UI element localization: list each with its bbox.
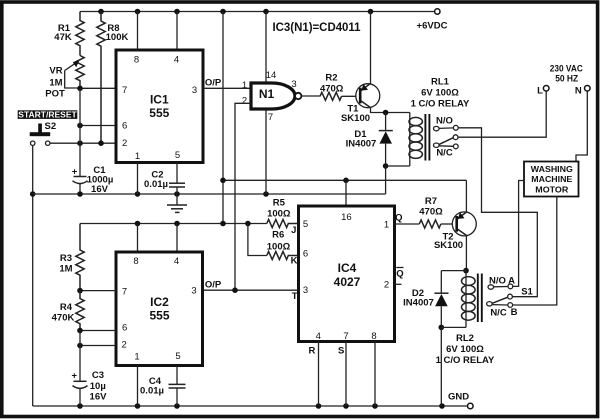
op-amp IC4 4027 box bbox=[299, 206, 395, 342]
svg-text:6V 100Ω: 6V 100Ω bbox=[421, 87, 459, 98]
wire IC1 O/P to N1 pin1 bbox=[203, 87, 251, 89]
wire upper ground rail bbox=[33, 193, 386, 195]
node +6VDC terminal bbox=[435, 9, 440, 14]
svg-text:0.01µ: 0.01µ bbox=[144, 179, 168, 190]
svg-text:4027: 4027 bbox=[334, 275, 361, 289]
svg-text:N/O: N/O bbox=[489, 275, 506, 286]
svg-text:7: 7 bbox=[343, 331, 348, 342]
capacitor C2 bbox=[176, 163, 178, 184]
svg-text:1 C/O RELAY: 1 C/O RELAY bbox=[411, 98, 470, 109]
resistor R5 bbox=[267, 220, 299, 228]
transistor T2 SK100 bbox=[452, 212, 476, 236]
wire IC1 pin1 to ground bbox=[137, 163, 139, 195]
relay RL1 contacts bbox=[434, 126, 440, 130]
svg-text:7: 7 bbox=[122, 85, 127, 96]
svg-text:2: 2 bbox=[384, 280, 389, 291]
wire N1 pin2 input bbox=[235, 103, 251, 290]
svg-text:MOTOR: MOTOR bbox=[535, 185, 568, 195]
wire IC2 pin2 row bbox=[80, 345, 116, 347]
svg-text:N/C: N/C bbox=[436, 148, 453, 159]
wire S2 left down to ground rails bbox=[32, 145, 34, 406]
potentiometer VR 1M bbox=[76, 56, 84, 89]
svg-text:4: 4 bbox=[174, 54, 179, 65]
op-amp N1 NAND gate bbox=[251, 83, 295, 109]
ground symbol bbox=[176, 194, 178, 205]
svg-text:4: 4 bbox=[316, 331, 321, 342]
svg-text:S1: S1 bbox=[521, 287, 533, 298]
wire N1 pin7 to ground bbox=[265, 111, 267, 195]
label START/RESET bbox=[18, 110, 78, 119]
svg-text:IC3(N1)=CD4011: IC3(N1)=CD4011 bbox=[273, 20, 361, 34]
svg-text:SK100: SK100 bbox=[434, 240, 463, 251]
svg-text:7: 7 bbox=[268, 112, 273, 123]
wire N1 pin14 to +6V bbox=[265, 12, 267, 82]
svg-text:8: 8 bbox=[133, 256, 138, 267]
resistor R7 bbox=[395, 223, 420, 225]
svg-text:470Ω: 470Ω bbox=[320, 83, 344, 94]
svg-text:L: L bbox=[537, 86, 543, 97]
svg-text:8: 8 bbox=[371, 331, 376, 342]
svg-text:6: 6 bbox=[303, 248, 308, 259]
svg-text:5: 5 bbox=[175, 351, 180, 362]
svg-text:470K: 470K bbox=[52, 313, 75, 324]
relay RL2 contacts S1 bbox=[488, 285, 494, 289]
svg-text:1: 1 bbox=[135, 151, 140, 162]
svg-text:WASHING: WASHING bbox=[531, 164, 573, 174]
svg-text:16V: 16V bbox=[91, 184, 109, 195]
svg-text:555: 555 bbox=[149, 308, 169, 322]
svg-text:R6: R6 bbox=[272, 229, 284, 240]
wire IC4 pin16 supply bbox=[345, 180, 347, 206]
washing machine motor box bbox=[524, 162, 579, 197]
svg-text:IN4007: IN4007 bbox=[346, 138, 377, 149]
transistor T1 SK100 bbox=[356, 84, 380, 108]
node top rail junction dots bbox=[98, 9, 104, 15]
wire bottom ground rail bbox=[33, 405, 468, 407]
wire node line down to C1 bbox=[79, 88, 81, 176]
wire +6V rail J/K y223.5 bbox=[80, 223, 267, 225]
svg-text:555: 555 bbox=[149, 106, 169, 120]
svg-text:VR: VR bbox=[49, 65, 62, 76]
node N terminal bbox=[585, 86, 591, 92]
svg-text:O/P: O/P bbox=[205, 279, 222, 290]
svg-text:GND: GND bbox=[448, 392, 469, 403]
relay coil RL1 bbox=[409, 113, 411, 167]
svg-text:1M: 1M bbox=[59, 264, 72, 275]
relay coil RL2 bbox=[465, 271, 467, 328]
wire IC4 pin2 stub bbox=[395, 283, 402, 285]
svg-text:6: 6 bbox=[122, 322, 127, 333]
svg-text:100K: 100K bbox=[106, 32, 129, 43]
svg-text:4: 4 bbox=[174, 256, 179, 267]
svg-text:IC2: IC2 bbox=[150, 295, 169, 309]
svg-text:14: 14 bbox=[266, 70, 277, 81]
wire IC4 bottom pins to ground bbox=[318, 342, 320, 407]
svg-text:2: 2 bbox=[242, 95, 247, 106]
svg-text:+: + bbox=[72, 371, 78, 382]
resistor R8 bbox=[97, 12, 105, 144]
svg-text:N/O: N/O bbox=[436, 116, 453, 127]
svg-text:POT: POT bbox=[45, 88, 65, 99]
svg-text:100Ω: 100Ω bbox=[267, 208, 291, 219]
svg-text:K: K bbox=[291, 256, 298, 267]
svg-text:1M: 1M bbox=[49, 77, 62, 88]
wire N to motor bbox=[576, 91, 587, 162]
svg-text:R5: R5 bbox=[273, 198, 286, 209]
svg-text:R2: R2 bbox=[325, 72, 337, 83]
svg-text:2: 2 bbox=[122, 339, 127, 350]
svg-text:S2: S2 bbox=[44, 121, 56, 132]
wire +6V sub-rail y180 bbox=[223, 179, 466, 181]
svg-text:RL1: RL1 bbox=[431, 76, 450, 87]
svg-text:R4: R4 bbox=[60, 302, 73, 313]
svg-text:3: 3 bbox=[303, 285, 308, 296]
svg-text:16: 16 bbox=[341, 212, 352, 223]
wire IC1 pin2 row to S2 bbox=[50, 142, 116, 144]
svg-text:1: 1 bbox=[384, 220, 389, 231]
svg-text:1: 1 bbox=[242, 80, 247, 91]
svg-text:47K: 47K bbox=[54, 32, 72, 43]
svg-text:6V 100Ω: 6V 100Ω bbox=[446, 344, 484, 355]
svg-text:R: R bbox=[308, 346, 315, 357]
svg-text:START/RESET: START/RESET bbox=[18, 110, 77, 120]
node L terminal bbox=[543, 86, 549, 92]
svg-text:470Ω: 470Ω bbox=[419, 207, 443, 218]
svg-text:SK100: SK100 bbox=[341, 113, 370, 124]
wire IC2 pin1 to ground bbox=[137, 366, 139, 407]
svg-text:B: B bbox=[511, 307, 518, 318]
svg-text:16V: 16V bbox=[90, 391, 108, 402]
wire IC2 pin7 row bbox=[80, 290, 116, 292]
svg-text:5: 5 bbox=[303, 219, 308, 230]
wire +6V feed down x223 bbox=[222, 12, 224, 224]
svg-text:C3: C3 bbox=[92, 370, 104, 381]
svg-text:8: 8 bbox=[134, 54, 139, 65]
wire motor bottom to contact B bbox=[513, 197, 557, 306]
svg-text:6: 6 bbox=[122, 120, 127, 131]
svg-text:Q: Q bbox=[395, 212, 402, 223]
resistor R2 bbox=[302, 95, 320, 97]
svg-text:7: 7 bbox=[122, 286, 127, 297]
svg-text:IN4007: IN4007 bbox=[403, 297, 434, 308]
svg-text:100Ω: 100Ω bbox=[267, 241, 291, 252]
svg-text:R3: R3 bbox=[60, 253, 72, 264]
svg-text:1 C/O RELAY: 1 C/O RELAY bbox=[436, 355, 495, 366]
diode D2 IN4007 bbox=[463, 268, 469, 274]
svg-text:T: T bbox=[292, 291, 298, 302]
wire IC1 pin7 row bbox=[80, 87, 116, 89]
svg-text:S: S bbox=[338, 346, 344, 357]
wire motor left to contact A bbox=[513, 181, 524, 287]
wire +6V top rail bbox=[80, 11, 435, 13]
svg-text:MACHINE: MACHINE bbox=[531, 174, 572, 184]
svg-text:IC1: IC1 bbox=[150, 93, 169, 107]
svg-text:N/C: N/C bbox=[490, 307, 507, 318]
capacitor C3 bbox=[79, 331, 81, 382]
svg-text:A: A bbox=[508, 275, 515, 286]
node GND terminal bbox=[468, 403, 474, 409]
resistor R4 bbox=[76, 291, 84, 331]
op-amp IC2 555 box bbox=[137, 224, 139, 253]
resistor R1 bbox=[76, 12, 84, 56]
op-amp IC1 555 box bbox=[137, 12, 139, 51]
svg-text:2: 2 bbox=[122, 138, 127, 149]
svg-text:Q: Q bbox=[396, 269, 403, 280]
resistor R6 bbox=[248, 224, 267, 256]
svg-text:3: 3 bbox=[191, 285, 196, 296]
svg-text:1: 1 bbox=[134, 351, 139, 362]
svg-text:O/P: O/P bbox=[205, 77, 222, 88]
resistor R3 bbox=[76, 224, 84, 291]
svg-text:R7: R7 bbox=[425, 196, 437, 207]
svg-text:+6VDC: +6VDC bbox=[417, 20, 448, 31]
wire RL1 N/O to S1 pole bbox=[458, 128, 537, 297]
svg-text:N1: N1 bbox=[259, 87, 275, 101]
wire IC2 pin6 row bbox=[80, 330, 116, 332]
svg-text:50 HZ: 50 HZ bbox=[555, 74, 578, 85]
wire IC2 O/P to IC4 pin3 T bbox=[203, 289, 299, 291]
svg-text:RL2: RL2 bbox=[456, 333, 474, 344]
capacitor C4 bbox=[176, 366, 178, 385]
svg-text:J: J bbox=[291, 225, 296, 236]
wire IC1 pin6 row bbox=[80, 125, 116, 127]
svg-text:0.01µ: 0.01µ bbox=[140, 386, 164, 397]
diode D1 IN4007 bbox=[383, 110, 389, 116]
svg-text:IC4: IC4 bbox=[338, 261, 357, 275]
svg-text:3: 3 bbox=[192, 85, 197, 96]
svg-text:3: 3 bbox=[291, 79, 296, 90]
svg-text:5: 5 bbox=[175, 150, 180, 161]
svg-text:N: N bbox=[575, 86, 582, 97]
wire RL1 pole to L bbox=[458, 91, 546, 137]
